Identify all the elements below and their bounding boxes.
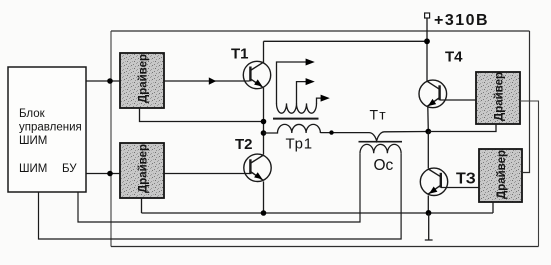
transformer Tr1 core bbox=[273, 118, 319, 120]
svg-text:Блок: Блок bbox=[19, 108, 46, 120]
svg-text:Тт: Тт bbox=[370, 107, 387, 123]
wire T4 emitter to midpoint bbox=[427, 107, 430, 132]
svg-text:Драйвер: Драйвер bbox=[138, 144, 150, 193]
node A junction bbox=[107, 78, 113, 84]
node T1 emitter / driver return bbox=[261, 119, 267, 125]
wire Ос right lead down to feedback line bbox=[39, 153, 402, 239]
wire driver U4 output to T3 base bbox=[441, 187, 479, 189]
driver U3 (Драйвер, upper right) bbox=[476, 72, 520, 124]
wire right drop of top rail to driver U4 bbox=[522, 31, 530, 173]
svg-text:Драйвер: Драйвер bbox=[138, 54, 150, 103]
wire T2 emitter down bbox=[263, 181, 265, 213]
wire right vertical x=538 up to driver U3 bbox=[520, 101, 539, 247]
node +310V rail junction bbox=[424, 38, 430, 44]
arrow on T1 gate wire bbox=[209, 77, 216, 84]
driver U4 (Драйвер, lower right) bbox=[479, 149, 522, 202]
node on primary wire bbox=[329, 130, 333, 134]
svg-text:T1: T1 bbox=[231, 46, 249, 63]
wire T3 collector to midpoint bbox=[427, 132, 429, 169]
control unit БУ (Блок управления ШИМ) bbox=[8, 67, 86, 192]
wire driver U4 return stub bbox=[492, 202, 494, 213]
wire midpoint to driver U3 return bbox=[428, 124, 496, 132]
wire Ос left lead down to feedback line bbox=[78, 153, 360, 222]
transistor T1 bbox=[243, 61, 270, 88]
wire bottom emitter line T2-T3 to driver U4 return bbox=[142, 212, 494, 214]
node T2 emitter on bottom line bbox=[261, 210, 267, 216]
wire Tr1 primary right to midpoint of right leg bbox=[320, 132, 428, 141]
svg-text:ШИМ: ШИМ bbox=[19, 163, 47, 175]
driver U2 (Драйвер, lower left) bbox=[120, 143, 164, 198]
svg-text:ШИМ: ШИМ bbox=[19, 135, 47, 147]
node T3 emitter on bottom line bbox=[426, 210, 432, 216]
transistor T3 bbox=[420, 168, 447, 195]
wire control output A to driver U1 bbox=[86, 80, 120, 82]
wire top signal rail from node A to right side bbox=[111, 30, 530, 32]
arrow secondary output 1 bbox=[306, 59, 315, 66]
svg-text:+310В: +310В bbox=[434, 12, 489, 29]
feedback winding Ос bbox=[360, 144, 401, 153]
wire driver U2 output to T2 base bbox=[164, 173, 250, 175]
current transformer Тт core bbox=[359, 141, 403, 143]
wire T3 emitter stub with end bar bbox=[425, 213, 433, 240]
svg-text:БУ: БУ bbox=[62, 163, 77, 175]
transistor T4 bbox=[419, 80, 447, 108]
wire driver U2 return down to bottom line bbox=[141, 198, 143, 213]
svg-text:управления: управления bbox=[19, 122, 82, 134]
wire T3 emitter down bbox=[427, 196, 429, 214]
wire +310V rail to T1 collector bbox=[264, 40, 428, 42]
wire driver U1 output to T1 base bbox=[164, 80, 250, 82]
wire driver U1 return to T1 emitter node bbox=[140, 108, 264, 122]
node B junction bbox=[107, 171, 113, 177]
wire left signal bus vertical x=111 bbox=[110, 31, 112, 247]
transistor T2 bbox=[244, 154, 271, 181]
transformer Tr1 primary winding bbox=[264, 124, 321, 133]
arrow secondary output 3 bbox=[321, 95, 330, 102]
transformer Tr1 secondary winding with taps bbox=[277, 62, 322, 113]
wire T1 emitter to T2 collector bbox=[263, 88, 265, 155]
wire bottom signal line to x=538 bbox=[111, 246, 539, 248]
svg-text:ТЗ: ТЗ bbox=[456, 171, 476, 188]
wire T1 collector up bbox=[263, 41, 265, 63]
svg-text:Тр1: Тр1 bbox=[286, 136, 313, 153]
svg-text:Ос: Ос bbox=[374, 157, 394, 174]
node Tr1 primary left bbox=[261, 130, 267, 136]
terminal +310V bbox=[425, 13, 430, 18]
svg-text:Драйвер: Драйвер bbox=[496, 150, 508, 199]
arrow secondary output 2 bbox=[306, 78, 315, 85]
wire control output B to driver U2 bbox=[86, 173, 120, 175]
svg-text:T2: T2 bbox=[235, 136, 253, 153]
wire driver U3 output to T4 base bbox=[440, 99, 476, 101]
svg-text:T4: T4 bbox=[445, 49, 463, 66]
node right leg midpoint bbox=[425, 129, 431, 135]
svg-text:Драйвер: Драйвер bbox=[494, 72, 506, 121]
wire +310V vertical feed to T4 collector bbox=[426, 18, 428, 82]
driver U1 (Драйвер, upper left) bbox=[120, 53, 164, 108]
